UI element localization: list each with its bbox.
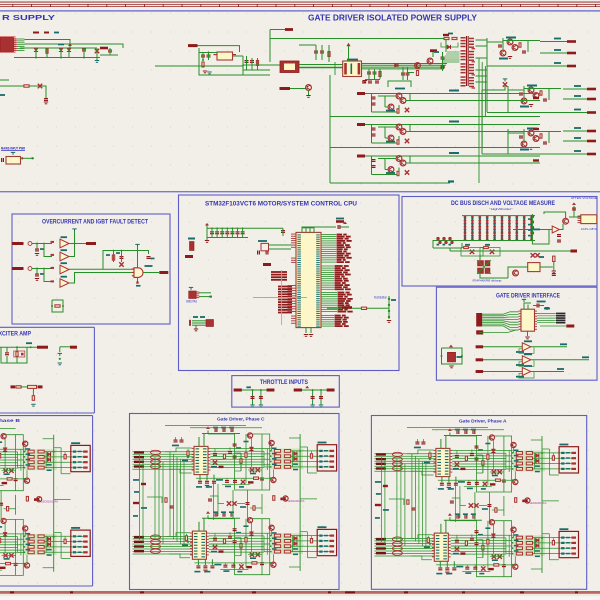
ground [529,147,533,148]
gate driver phase C circuit [133,426,337,575]
ground [319,405,323,406]
wire [20,47,97,49]
capacitor Cb [319,396,323,397]
ground [449,366,453,367]
zener D [405,170,409,174]
wire drop 2 [320,390,322,405]
wire [371,156,373,175]
wire [372,111,400,113]
net label [0,94,5,96]
net label +5V [100,47,108,50]
output wire [563,140,587,142]
teal label [145,265,153,267]
resistor RA [464,246,469,248]
wire MCU pin [321,304,337,306]
wires [199,292,211,294]
ground [310,405,314,406]
net label [587,88,596,91]
net name [338,296,344,298]
svg-text:Gate Driver, Phase C: Gate Driver, Phase C [217,417,265,422]
supply branch wire [60,346,70,348]
resistor R99 [28,385,37,388]
net label supply [357,92,365,95]
wire MCU pin [321,265,334,267]
net label [567,52,576,55]
wire gate output [143,272,159,274]
ground [35,253,39,254]
net name [335,315,341,317]
teal label [246,386,251,388]
value label [554,38,561,40]
decoupling capacitor C56 [241,231,245,232]
wire [243,64,280,66]
wire output rail [365,124,540,126]
net name [335,280,343,282]
net label [567,65,576,68]
transformer T1 secondary winding stack [461,37,466,39]
junction dots [51,305,53,307]
net label OCD input [12,267,24,270]
wire MCU pin [321,280,334,282]
transistor Q regulator pass [528,130,534,136]
feedback wire [519,347,534,353]
net name [337,236,345,238]
capacitor C [543,142,547,143]
IC X1 oscillator [6,157,21,165]
wire MCU pin [321,257,336,259]
second output wire [410,100,540,102]
value label [574,127,581,129]
wire C out [69,268,134,270]
resistor R1 [46,49,48,54]
vertical feed wire [269,30,271,63]
section frame EXCITER AMP (cut at left) [0,327,94,413]
wire [32,389,34,396]
value labels [33,32,39,34]
resistor R22 [328,52,330,57]
divider output wire [450,250,574,252]
label [386,141,395,143]
power flag [305,386,309,389]
wire main rail [14,57,100,59]
power flag [449,345,453,348]
net name [337,242,342,244]
ground [95,60,99,61]
resistor R20 [202,62,204,67]
net name [335,286,342,288]
transistor Q52 [513,270,519,276]
ground [387,320,391,321]
array top rail [462,215,535,217]
output wire [563,88,587,90]
wire [199,48,270,75]
net label +12V [188,44,198,47]
crystal Y1 [261,243,269,250]
net name [338,304,345,306]
net name [337,240,346,242]
wire MCU pin [321,259,336,261]
wire [486,42,488,112]
net label [566,325,574,328]
wire MCU pin [321,294,337,296]
wire [532,229,549,244]
value label [574,95,581,97]
wire MCU pin [321,271,334,273]
wire [25,40,71,49]
label [465,244,470,246]
svg-text:THROTTLE INPUTS: THROTTLE INPUTS [260,379,308,386]
decoupling capacitor C55 [236,231,240,232]
transistor Q b [400,129,406,135]
wire output rail [365,93,540,95]
capacitor C72 [552,273,556,274]
comparator op-amp [60,279,69,287]
wires [508,267,528,278]
feedback wire [519,372,534,378]
ground [508,56,512,57]
wire MCU pin [321,255,336,257]
wires crystal to MCU [269,244,292,246]
svg-text:GATE DRIVER INTERFACE: GATE DRIVER INTERFACE [496,293,560,300]
wires [433,247,462,249]
transistor Q a [396,93,402,99]
net name [338,294,346,296]
left pin stubs [291,233,296,236]
wire [483,346,522,348]
net label OCD input [12,242,24,245]
junction dot [36,243,38,245]
label T1 [347,59,358,61]
net label [587,130,596,133]
wire MCU pin [321,251,336,253]
net name [337,259,342,261]
svg-text:STM32F103VCT6 MOTOR/SYSTEM CON: STM32F103VCT6 MOTOR/SYSTEM CONTROL CPU [205,201,357,208]
array bottom rail [453,240,535,242]
wire [290,88,306,90]
label [386,172,395,174]
net label [37,346,48,349]
IC U64 [447,352,455,362]
op-amp U63 driver [522,368,531,376]
transistor Q regulator drive [533,93,539,99]
wires [507,129,509,154]
wires [569,216,581,218]
wire [299,44,316,46]
svg-text:XCITER AMP: XCITER AMP [0,331,31,338]
net label supply [357,155,365,158]
net name [337,257,346,259]
wire test button [327,307,389,309]
op-amp U61 driver [522,343,531,351]
teal labels [524,353,532,355]
resistor R31 [416,71,418,76]
zener DA [470,250,474,254]
section frame OVERCURRENT AND IGBT FAULT DETECT [12,214,170,324]
wire [243,69,270,71]
wire MCU pin [321,276,334,278]
output wire [563,98,587,100]
power flag [572,202,576,205]
IC U52 isolation amp [581,215,597,224]
transistor Q20 [306,85,312,91]
value label [574,85,581,87]
net name [335,323,341,325]
wires IC pin bundle [17,38,25,40]
sense network B loop [480,248,500,257]
wire MCU pin [321,238,336,240]
net name [335,276,341,278]
net name [335,274,344,276]
wire [408,72,415,74]
feedback loop wire [388,81,411,87]
AND gate U32 [134,268,143,278]
feedback wire [519,360,534,366]
zener D [405,139,409,143]
comparator op-amp [60,252,69,261]
net label input 2 [476,358,484,361]
net label [571,250,578,253]
input bus wires [482,312,518,314]
top rail wire [270,39,446,53]
svg-text:Test Button: Test Button [374,296,387,300]
return wire [330,182,450,184]
wire [198,46,240,52]
power flag [522,299,526,300]
wire [0,86,46,98]
capacitor C [372,128,376,129]
teal label [40,248,44,250]
net label [587,98,596,101]
wire [334,62,336,75]
resistor R44 [55,305,60,307]
value label [574,150,581,152]
net label fault A [86,242,96,245]
wires IC to names [537,313,556,315]
section frame Gate Driver Phase A [371,416,586,590]
wire [0,346,37,348]
section frame GATE DRIVER INTERFACE [436,287,597,380]
top power wires [524,303,531,309]
section frame STM32F103VCT6 MOTOR/SYSTEM CONTROL CPU [179,195,400,371]
net label 2 [533,97,539,99]
pull-up resistor R42 [112,255,114,260]
wire [233,55,244,57]
zener D41 [119,262,123,266]
testpoint oval [28,267,32,271]
resistor R2 [24,85,29,87]
capacitor C [372,134,376,135]
section frame DC BUS DISCH AND VOLTAGE MEASURE [402,197,597,287]
gate driver phase B circuit (partial, reused) [0,426,90,575]
section frame Gate Driver Phase B (cut) [0,416,93,586]
net name [335,319,342,321]
label [520,106,529,108]
net name [449,121,459,123]
capacitor C80 [537,304,538,308]
transistor Q51 [563,218,569,224]
svg-text:ATTEN VOLTAGE: ATTEN VOLTAGE [571,196,597,200]
ground [203,71,207,72]
wire MCU pin [321,278,334,280]
input bus net labels [476,313,482,327]
transistor Q regulator shunt [521,141,527,147]
wire MCU pin [321,298,337,300]
net label [285,28,293,31]
wire [483,359,522,361]
net label [476,330,483,334]
hysteresis circuit wire loop [52,300,63,312]
transistor Q regulator shunt [521,98,527,104]
label [499,58,508,60]
regulator U40 [190,242,195,251]
ground [194,329,198,330]
net name [338,298,347,300]
decoupling capacitor C51 [215,231,219,232]
capacitor Cb [259,396,263,397]
svg-text:OVERCURRENT AND IGBT FAULT DET: OVERCURRENT AND IGBT FAULT DETECT [42,219,148,226]
resistor R [397,109,399,113]
net name rows (left of MCU) [271,271,287,273]
connector J3 [206,320,214,327]
svg-text:"High/Divider": "High/Divider" [490,207,513,211]
wire MCU pin [321,292,337,294]
net name [337,234,343,236]
filter caps [362,81,366,82]
teal ref label [61,236,68,238]
capacitor C3 [108,50,112,51]
op-amp U51 buffer [552,226,559,233]
output wire [531,359,589,361]
output wire [531,346,567,348]
transistor Q30 [415,63,421,69]
second output wire [410,162,540,164]
wire branch to second comparator [44,269,52,282]
wire [302,389,335,391]
svg-text:ACPL-C87A: ACPL-C87A [581,227,597,231]
IC U20 5V regulator [217,52,233,60]
capacitor C71 [557,240,561,241]
snubber resistor R33 [452,37,457,39]
net name [338,306,346,308]
wire MCU pin [321,311,337,313]
wires [486,38,488,66]
capacitor Ca [311,396,315,397]
snubber resistor R32 [444,37,449,39]
net name rows (lower left of MCU) [278,286,292,288]
output wire [487,65,567,67]
power flag VCC [205,223,209,226]
resistor R [519,43,521,47]
transistor Q regulator shunt [500,50,506,56]
wire [371,94,373,113]
wire drop 1 [312,390,314,405]
decoupling capacitor C53 [225,231,229,232]
net name [338,292,345,294]
return wire [330,147,540,149]
wire MCU pin [321,244,336,246]
net label [567,40,576,43]
wire B out [69,244,75,257]
transformer T1 [343,61,362,77]
wire [242,389,275,391]
IC bottom stub [527,331,529,336]
resistor R100 [32,396,34,401]
capacitor C [372,103,376,104]
ground [44,102,48,103]
discharge resistor array R50-R89 [464,216,466,241]
net name [449,90,459,92]
wires [192,320,206,322]
feed wire [433,241,453,249]
filter capacitor [36,269,38,274]
wire MCU pin [321,242,336,244]
resistor R [540,91,542,95]
wire [199,52,217,54]
net name [560,343,567,345]
net name [337,244,344,246]
capacitor C [372,165,376,166]
winding connection wires [447,51,460,53]
teal symbol [58,353,62,354]
transistor Q regulator drive [533,136,539,142]
ground [552,271,556,272]
capacitor Ca [251,396,255,397]
discharge IGBT module Q50 [478,261,484,267]
net name [337,253,345,255]
wire [372,142,400,144]
output wire [540,52,567,54]
resistor R [397,140,399,144]
ground [205,240,209,241]
value label [574,137,581,139]
capacitor C40 [120,256,124,257]
junction dot [202,59,204,61]
capacitor C [372,159,376,160]
sheet frame top border line [0,10,600,11]
capacitor C21 [207,55,211,56]
power flag [503,78,507,79]
net name [335,321,342,323]
comparator op-amp [60,265,69,274]
wire MCU pin [321,267,334,269]
capacitor C33 [401,73,405,74]
teal ref label [61,262,68,264]
wire MCU pin [321,309,337,311]
net name [335,282,341,284]
transistor Q regulator drive [512,45,518,51]
capacitor C20 [201,55,205,56]
net name [557,368,564,370]
throttle channel 1 net label in [234,389,242,392]
power supply T gate [135,244,139,245]
wire bus to transformer [299,64,343,66]
wire MCU pin [321,261,336,263]
resistor R98 [16,386,21,388]
junction dot [31,157,33,159]
power flag [11,152,15,153]
wire drop 2 [260,390,262,405]
junction [210,296,212,298]
MCU top stub wires [302,227,336,232]
capacitor C32 [373,72,377,73]
second output wire [410,131,540,133]
net label [263,263,271,266]
net name [335,272,342,274]
input resistor box [51,254,55,256]
net name [582,356,589,358]
feed wire from left supply [155,65,243,67]
net name [338,300,345,302]
